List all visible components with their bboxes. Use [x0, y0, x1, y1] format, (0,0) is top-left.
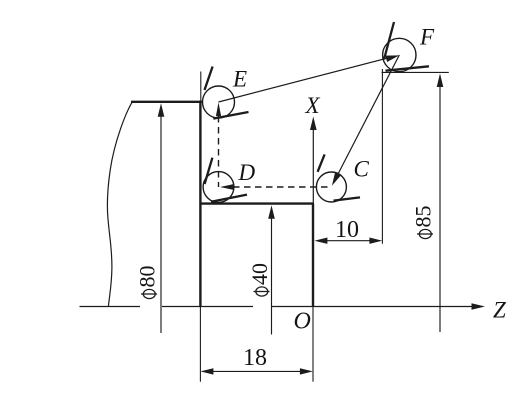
- svg-text:40: 40: [247, 263, 272, 285]
- phi85 arrowhead: [437, 74, 444, 88]
- svg-text:X: X: [305, 93, 321, 118]
- dim10 right arrowhead: [369, 238, 382, 244]
- feed path line E to F: [219, 58, 388, 102]
- X axis arrowhead: [310, 117, 317, 131]
- dimension line phi85: [439, 86, 441, 332]
- phi80 label: [135, 266, 160, 299]
- dashed rapid path D to E: [218, 116, 220, 187]
- part left face vertical: [199, 101, 201, 307]
- arrow at C (pointing along F-C): [332, 172, 341, 186]
- dimension line phi40: [271, 218, 273, 335]
- dimension line phi80: [160, 115, 162, 333]
- phi80 arrowhead: [158, 103, 165, 117]
- extension line right for 18-dimension: [312, 307, 314, 382]
- extension line from F down to 10-dimension: [381, 69, 383, 244]
- arrow at D (pointing left): [220, 184, 234, 190]
- svg-text:85: 85: [411, 206, 436, 228]
- dim10 left arrowhead: [314, 238, 327, 244]
- part top face (phi80 surface): [131, 101, 202, 103]
- break (wavy) line: [107, 102, 132, 307]
- svg-text:F: F: [419, 25, 435, 50]
- tool nose circle C: [316, 172, 346, 202]
- tool nose circle D: [203, 172, 234, 203]
- svg-text:C: C: [354, 157, 370, 182]
- dim18 left arrowhead: [200, 368, 213, 374]
- tool edge marks at C: [318, 154, 360, 200]
- Z axis arrowhead: [472, 303, 486, 310]
- phi85 label: [411, 206, 436, 239]
- tool nose circle F: [383, 38, 416, 71]
- tool edge marks at E: [205, 67, 249, 119]
- thin vertical extension above corner E: [200, 72, 202, 102]
- phi85 top extension line: [382, 71, 449, 73]
- svg-text:18: 18: [243, 345, 267, 371]
- svg-text:80: 80: [135, 266, 160, 288]
- svg-text:10: 10: [335, 217, 359, 243]
- part step face horizontal (phi40 shoulder): [200, 202, 314, 204]
- phi40 arrowhead: [268, 205, 275, 219]
- dimension line 10: [326, 240, 370, 242]
- svg-text:D: D: [238, 160, 256, 185]
- arrow at F (pointing along E-F): [385, 55, 399, 62]
- svg-text:E: E: [232, 67, 247, 92]
- phi40 label: [247, 263, 272, 296]
- arrow at E (pointing up): [216, 102, 221, 116]
- dim18 right arrowhead: [300, 368, 313, 374]
- tool nose circle E: [203, 86, 235, 118]
- svg-text:Z: Z: [493, 298, 506, 323]
- tool edge marks at F: [384, 22, 429, 71]
- tool edge marks at D: [205, 158, 247, 202]
- Z axis line (segmented): [80, 306, 472, 308]
- extension line left for 18-dimension: [199, 307, 201, 382]
- dimension line 18: [212, 370, 301, 372]
- X axis line: [312, 129, 314, 307]
- part right face vertical (on X axis): [312, 204, 314, 307]
- feed path line F to C: [334, 55, 399, 182]
- svg-text:O: O: [294, 309, 311, 335]
- dashed rapid path C to D: [233, 186, 331, 188]
